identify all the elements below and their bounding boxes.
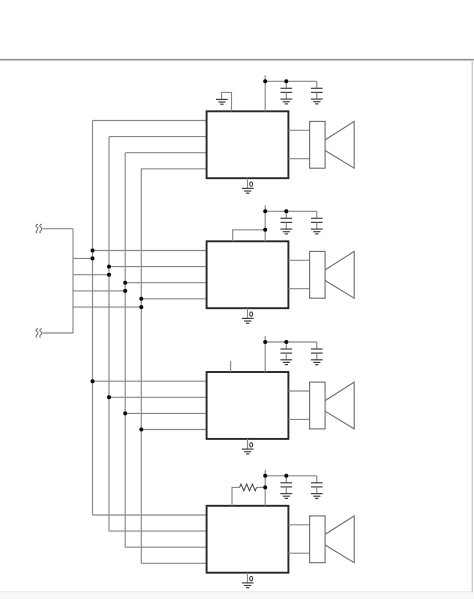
wire bypass rail U1 <box>265 80 317 82</box>
wire from top squiggle to bus <box>42 228 73 230</box>
wire net1 to U2 pin 1 <box>93 250 207 252</box>
ground symbol under U3 <box>242 448 254 450</box>
wire U4 OUT- to speaker <box>288 552 309 554</box>
wire bus branch 3 <box>73 290 125 292</box>
wire net4 to U2 pin 4 <box>141 298 206 300</box>
wire net2 to U2 pin 2 <box>109 266 207 268</box>
junction node net2/U3 <box>107 395 111 399</box>
wire net4 to U3 pin 4 <box>141 429 206 431</box>
wire net4 vertical run <box>140 169 142 564</box>
wire bypass rail U2 <box>265 210 317 212</box>
resistor R1 <box>240 484 257 491</box>
junction node R1/rail <box>263 485 267 489</box>
wire U2 OUT- to speaker <box>288 288 309 290</box>
vertical bus wire <box>72 229 74 333</box>
wire bypass rail U4 <box>265 475 317 477</box>
capacitor C1 <box>285 81 287 88</box>
wire net3 to U1 pin 3 <box>125 152 206 154</box>
wire U3 OUT+ to speaker <box>288 390 309 392</box>
junction node net3/U3 <box>123 411 127 415</box>
wire U2 mute pin to rail <box>233 230 266 242</box>
capacitor C6 <box>316 342 318 349</box>
capacitor C2 <box>316 81 318 88</box>
page bottom edge <box>0 592 474 599</box>
wire net4 to U1 pin 4 <box>141 168 206 170</box>
wire from bottom squiggle to bus <box>42 332 73 334</box>
wire net1 to U4 pin 1 <box>93 514 207 516</box>
wire net1 to U3 pin 1 <box>93 380 207 382</box>
wire U1 GND pin <box>247 178 249 188</box>
junction node net3/U2 <box>123 281 127 285</box>
ground for C1 <box>280 98 292 100</box>
ground symbol under U4 <box>242 582 254 584</box>
wire net2 to U3 pin 2 <box>109 396 207 398</box>
ground for C4 <box>311 228 323 230</box>
capacitor C8 <box>316 476 318 483</box>
rail node U1 <box>263 79 267 83</box>
ground for C3 <box>280 228 292 230</box>
wire U1 OUT- to speaker <box>288 158 309 160</box>
ground symbol at U1 mute pin <box>216 98 228 100</box>
junction node bus branch 1 <box>91 256 95 260</box>
wire net2 to U4 pin 2 <box>109 530 207 532</box>
wire U2 OUT+ to speaker <box>288 259 309 261</box>
ground for C6 <box>311 359 323 361</box>
speaker LS4 <box>310 516 355 563</box>
wire net3 to U4 pin 3 <box>125 546 206 548</box>
junction node cap tap U3 <box>284 340 288 344</box>
junction node net2/U2 <box>107 265 111 269</box>
ground symbol under U2 <box>242 317 254 319</box>
wire R1 to rail node <box>257 486 266 488</box>
wire U1 OUT+ to speaker <box>288 129 309 131</box>
junction node net1/U3 <box>91 379 95 383</box>
sheet right border line <box>471 60 473 592</box>
wire U4 OUT+ to speaker <box>288 524 309 526</box>
wire net3 to U3 pin 3 <box>125 412 206 414</box>
net label 0 under U1 <box>250 182 253 186</box>
wire net2 to U1 pin 2 <box>109 136 207 138</box>
speaker LS1 <box>310 121 355 168</box>
wire bypass rail U3 <box>265 341 317 343</box>
wire U2 supply pin to rail node <box>264 205 266 241</box>
ground for C5 <box>280 359 292 361</box>
wire U3 OUT- to speaker <box>288 418 309 420</box>
speaker LS2 <box>310 251 355 298</box>
junction node cap tap U2 <box>284 209 288 213</box>
wire net3 to U2 pin 3 <box>125 282 206 284</box>
rail node U4 <box>263 474 267 478</box>
wire bus branch 2 <box>73 274 109 276</box>
amplifier block U2 <box>207 241 289 308</box>
wire U2 GND pin <box>247 308 249 318</box>
junction node net1/U2 <box>91 249 95 253</box>
junction node U2 mute/rail <box>263 228 267 232</box>
junction node cap tap U1 <box>284 79 288 83</box>
junction node cap tap U4 <box>284 474 288 478</box>
junction node net4/U2 <box>139 297 143 301</box>
ground for C2 <box>311 98 323 100</box>
wire U4 mute pin to resistor R1 <box>232 487 240 505</box>
amplifier block U3 <box>207 372 289 439</box>
junction node bus branch 3 <box>123 289 127 293</box>
amplifier block U1 <box>207 111 289 178</box>
junction node net4/U3 <box>139 428 143 432</box>
amplifier block U4 <box>207 506 289 573</box>
net label 0 under U3 <box>250 443 253 447</box>
wire net4 to U4 pin 4 <box>141 562 206 564</box>
wire U3 mute pin stub <box>230 361 232 372</box>
wire bus branch 4 <box>73 306 141 308</box>
ground for C8 <box>311 493 323 495</box>
wire U4 GND pin <box>247 573 249 583</box>
wire bus branch 1 <box>73 257 93 259</box>
wire U1 mute pin to ground <box>222 92 232 111</box>
rail node U3 <box>263 340 267 344</box>
wire net1 to U1 pin 1 <box>93 120 207 122</box>
speaker LS3 <box>310 382 355 429</box>
capacitor C4 <box>316 211 318 218</box>
wire U4 supply pin to rail node <box>264 470 266 506</box>
junction node bus branch 4 <box>139 305 143 309</box>
wire U1 supply pin to rail node <box>264 75 266 111</box>
sheet top border line <box>0 59 474 61</box>
wire net3 vertical run <box>124 153 126 548</box>
capacitor C5 <box>285 342 287 349</box>
net label 0 under U4 <box>250 576 253 580</box>
capacitor C7 <box>285 476 287 483</box>
junction node bus branch 2 <box>107 273 111 277</box>
wire U3 supply pin to rail node <box>264 336 266 372</box>
ground symbol under U1 <box>242 187 254 189</box>
off-page connector J1 squiggle (top) <box>36 224 38 233</box>
off-page connector J2 squiggle (bottom) <box>36 329 38 338</box>
wire net2 vertical run <box>108 137 110 531</box>
wire U3 GND pin <box>247 439 249 449</box>
net label 0 under U2 <box>250 312 253 316</box>
ground for C7 <box>280 493 292 495</box>
rail node U2 <box>263 209 267 213</box>
wire net1 vertical run <box>92 121 94 516</box>
capacitor C3 <box>285 211 287 218</box>
